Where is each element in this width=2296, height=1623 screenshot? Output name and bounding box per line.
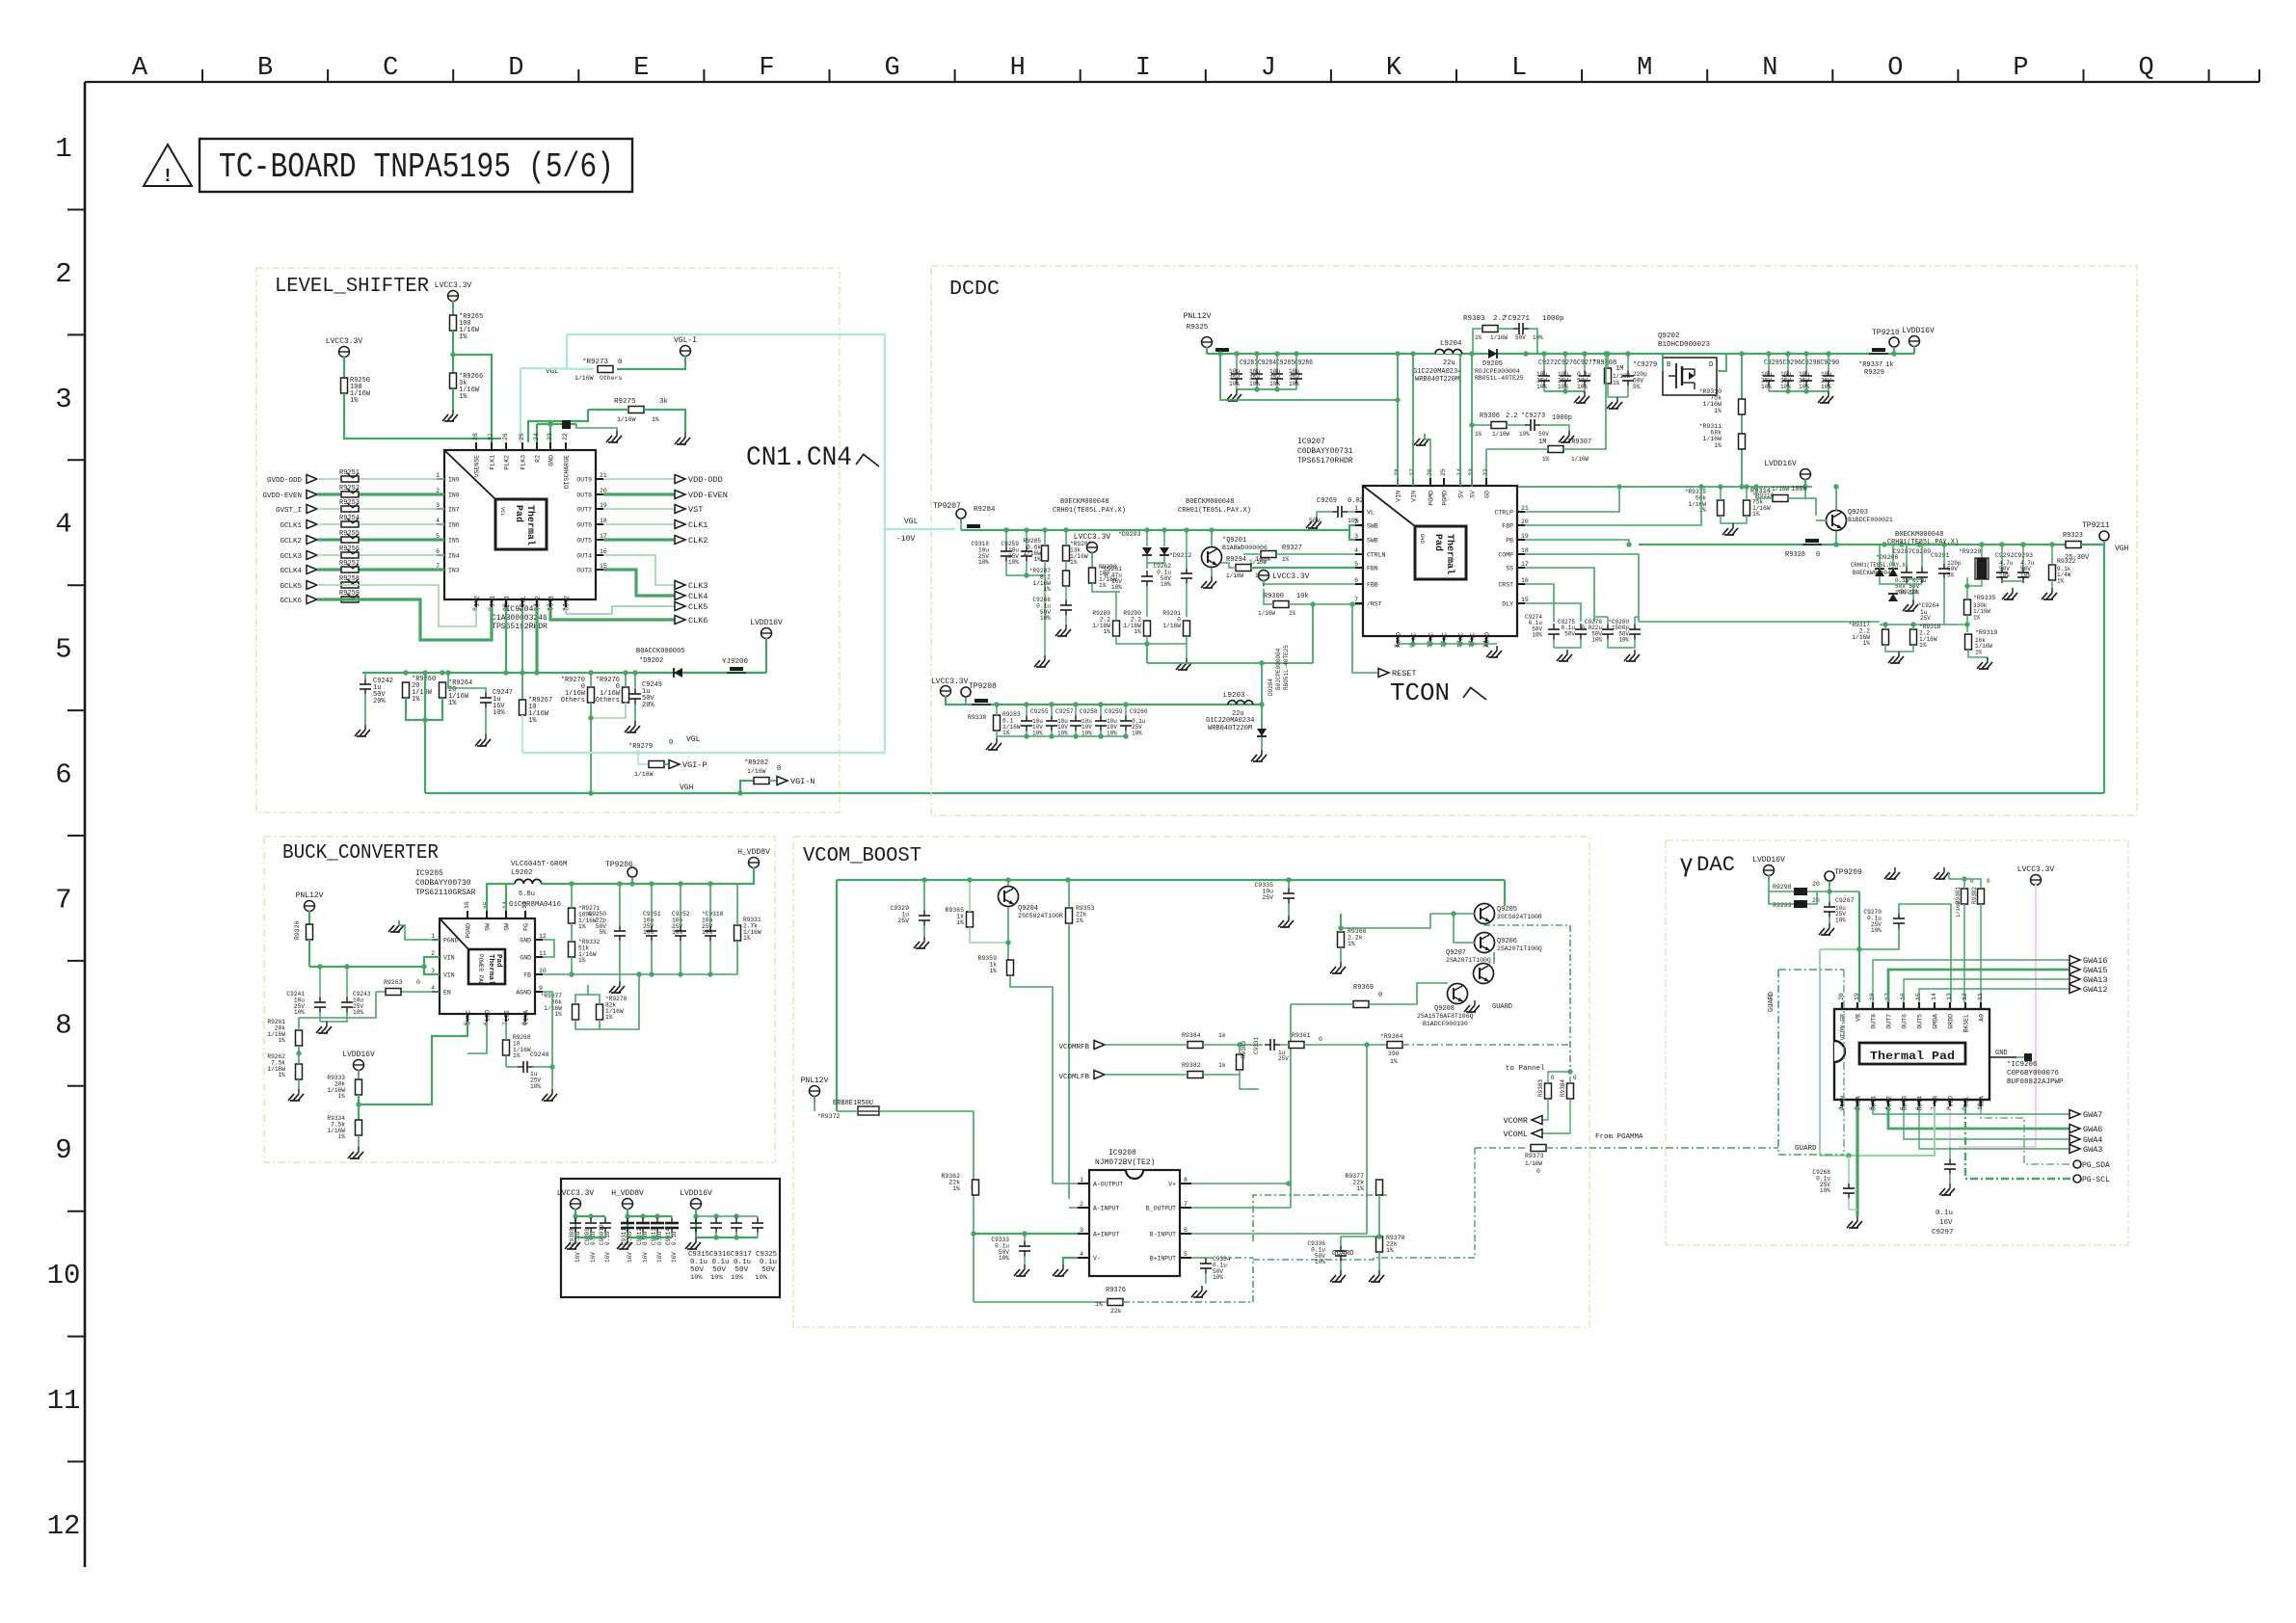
svg-text:10: 10 xyxy=(539,968,547,974)
svg-text:R9302: R9302 xyxy=(1971,887,1978,904)
resistor R9362 xyxy=(973,1180,979,1195)
svg-text:G1C6R8MA0416: G1C6R8MA0416 xyxy=(509,901,562,909)
svg-text:B0JCPE000004: B0JCPE000004 xyxy=(1275,648,1282,690)
svg-text:SW: SW xyxy=(504,923,511,931)
resistor R9283 xyxy=(994,715,1001,731)
svg-text:18: 18 xyxy=(600,518,607,524)
power LVDD16V xyxy=(1764,865,1775,876)
svg-text:TCON: TCON xyxy=(1390,678,1450,707)
svg-text:2SA2071T100Q: 2SA2071T100Q xyxy=(1446,957,1491,964)
block DCDC outline xyxy=(931,266,2137,815)
wire xyxy=(317,568,444,571)
svg-text:R9382: R9382 xyxy=(1182,1062,1201,1069)
svg-text:NC: NC xyxy=(1428,632,1435,640)
svg-text:I: I xyxy=(1135,54,1151,83)
svg-text:WRB040T220M: WRB040T220M xyxy=(1208,725,1252,732)
svg-text:R9275: R9275 xyxy=(614,398,636,406)
svg-text:16: 16 xyxy=(464,901,470,909)
svg-text:1: 1 xyxy=(1080,1177,1083,1184)
svg-text:IC9207: IC9207 xyxy=(1297,438,1325,446)
svg-text:0.1u: 0.1u xyxy=(604,1231,611,1245)
IC9207 pin 19 PB xyxy=(1517,539,1525,541)
svg-text:5%: 5% xyxy=(600,929,607,936)
svg-text:G1C220MA0234: G1C220MA0234 xyxy=(1413,368,1461,376)
svg-text:Thermal: Thermal xyxy=(1444,534,1455,574)
svg-text:AGND: AGND xyxy=(1484,632,1491,648)
svg-text:TP9210: TP9210 xyxy=(1872,329,1900,337)
wire B-INPUT xyxy=(1191,1045,1367,1234)
capacitor C9279 xyxy=(1622,375,1634,377)
IC9205 pin 13 PG xyxy=(524,911,526,918)
svg-text:25V: 25V xyxy=(1278,1055,1289,1062)
svg-text:C9269: C9269 xyxy=(1317,497,1337,505)
svg-text:GUARD: GUARD xyxy=(1768,992,1775,1012)
svg-text:R9329: R9329 xyxy=(1864,369,1884,377)
svg-text:1%: 1% xyxy=(528,717,537,725)
svg-text:*R9273: *R9273 xyxy=(582,359,609,366)
svg-text:10%: 10% xyxy=(1558,384,1568,390)
IC9208 pin 1 A-OUTPUT xyxy=(1078,1183,1089,1184)
svg-text:BUF08822AJPWP: BUF08822AJPWP xyxy=(2007,1078,2064,1086)
svg-text:DCDC: DCDC xyxy=(949,279,1000,301)
svg-text:1%: 1% xyxy=(1542,456,1550,463)
IC9204 pin 26 PLK2 xyxy=(505,442,507,450)
svg-text:2SC5824T100R: 2SC5824T100R xyxy=(1018,913,1063,919)
resistor R9275 xyxy=(628,407,644,413)
wire GUARD label line xyxy=(1253,1245,1475,1260)
svg-text:1%: 1% xyxy=(1975,649,1983,655)
svg-text:Q: Q xyxy=(2138,54,2153,83)
wire bus + ground xyxy=(1907,578,1922,580)
svg-text:CLK2: CLK2 xyxy=(688,536,707,545)
row tick marks xyxy=(67,209,85,211)
svg-text:Others: Others xyxy=(596,697,620,705)
resistor R9290 xyxy=(1144,621,1151,636)
IC9207 thermal pad xyxy=(1415,526,1466,579)
svg-text:2: 2 xyxy=(1354,519,1358,525)
svg-text:CRST: CRST xyxy=(1498,582,1513,589)
ground xyxy=(619,981,621,986)
wire CLK6 route xyxy=(550,607,675,620)
ground (pin GND) xyxy=(616,431,618,436)
svg-text:1/16W: 1/16W xyxy=(1258,610,1275,617)
svg-text:0: 0 xyxy=(1378,992,1382,999)
IC9204 pin 20 OUT8 xyxy=(596,493,603,495)
svg-text:D: D xyxy=(1709,361,1713,369)
svg-text:LVDD16V: LVDD16V xyxy=(750,619,783,627)
IC9206 pin 3 OUT1 xyxy=(1872,1100,1874,1106)
IC9205 pin 12 GND xyxy=(535,939,543,941)
svg-text:CTRLN: CTRLN xyxy=(1367,552,1386,559)
svg-text:IC9205: IC9205 xyxy=(415,869,443,878)
GUARD dash-dot box xyxy=(1778,969,1844,971)
svg-text:0: 0 xyxy=(618,359,623,366)
svg-text:0: 0 xyxy=(1987,878,1990,885)
wire SDA dash-dot xyxy=(1981,1106,2073,1164)
svg-text:*R9308: *R9308 xyxy=(1592,359,1616,367)
svg-text:10%: 10% xyxy=(1519,431,1530,438)
IC9205 pin 8 VINA xyxy=(524,1014,526,1022)
wire GWA4 route xyxy=(1904,1106,2069,1139)
wire PGMD ground xyxy=(1429,470,1431,478)
svg-text:20%: 20% xyxy=(642,702,654,709)
svg-text:22u: 22u xyxy=(1443,359,1455,367)
resistor R9369 xyxy=(1353,1001,1369,1008)
svg-text:21: 21 xyxy=(1521,505,1529,512)
svg-text:FLK3: FLK3 xyxy=(521,455,527,470)
svg-text:TPS62110GRSAR: TPS62110GRSAR xyxy=(415,889,476,897)
diode D9212 xyxy=(1160,547,1169,555)
svg-text:OUT3: OUT3 xyxy=(576,568,592,574)
svg-text:R9300: R9300 xyxy=(1264,593,1284,600)
svg-text:CTRLP: CTRLP xyxy=(1494,510,1513,517)
IC9207 pin 6 FBB xyxy=(1355,583,1363,585)
svg-text:VGI-N: VGI-N xyxy=(790,777,815,786)
svg-text:10%: 10% xyxy=(2020,572,2031,578)
svg-text:PGMD: PGMD xyxy=(1442,491,1449,506)
svg-text:TC-BOARD TNPA5195 (5/6): TC-BOARD TNPA5195 (5/6) xyxy=(219,147,614,187)
svg-text:C9291: C9291 xyxy=(1931,552,1950,559)
svg-text:TPS65192RHDR: TPS65192RHDR xyxy=(492,623,547,631)
resistor R9332 xyxy=(569,942,575,957)
wire out VST xyxy=(603,508,675,510)
svg-text:4: 4 xyxy=(431,985,435,992)
IC9204 pin 24 R2 xyxy=(536,442,538,450)
svg-text:R2: R2 xyxy=(535,455,542,463)
capacitor C9276b xyxy=(1602,628,1614,630)
svg-text:1%: 1% xyxy=(1002,730,1010,736)
svg-text:L: L xyxy=(1511,54,1527,83)
svg-text:1/16W: 1/16W xyxy=(1490,334,1508,341)
svg-text:VCOML: VCOML xyxy=(1503,1130,1528,1139)
ground xyxy=(574,1237,576,1242)
svg-text:SCL: SCL xyxy=(1963,1096,1970,1107)
diode D9204 xyxy=(1261,663,1263,730)
wire xyxy=(341,597,359,602)
wire xyxy=(317,554,444,556)
wire down to R9376 net xyxy=(973,1111,974,1302)
resistor R9276 xyxy=(623,687,629,703)
IC9204 pin 25 FLK3 xyxy=(521,442,523,450)
svg-text:SV: SV xyxy=(1470,491,1477,498)
resistor R9302 xyxy=(1978,889,1985,904)
svg-text:K: K xyxy=(1386,54,1402,83)
output flag GWA15 xyxy=(2069,966,2080,974)
svg-text:GND: GND xyxy=(1995,1050,2008,1057)
svg-text:1/16W: 1/16W xyxy=(574,375,594,382)
svg-text:1k: 1k xyxy=(1218,1062,1226,1069)
IC9206 pin 14 GMDA xyxy=(1934,1002,1936,1009)
svg-text:R9361: R9361 xyxy=(1292,1032,1311,1039)
svg-text:LVDD16V: LVDD16V xyxy=(1752,856,1785,865)
svg-text:16V: 16V xyxy=(574,1252,581,1263)
resistor R9373 xyxy=(1475,1147,1527,1149)
svg-text:VB: VB xyxy=(1855,1014,1862,1022)
svg-text:GCLK3: GCLK3 xyxy=(280,553,302,561)
IC9207 pin 11 NC xyxy=(1443,636,1445,644)
svg-text:1/16W: 1/16W xyxy=(617,416,636,423)
svg-text:10%: 10% xyxy=(1229,381,1240,387)
wire xyxy=(317,538,444,541)
svg-text:CLK4: CLK4 xyxy=(688,592,707,601)
svg-text:γ: γ xyxy=(1680,848,1693,877)
IC9205 pin 16 PGND xyxy=(467,911,468,918)
svg-text:1000p: 1000p xyxy=(1542,315,1564,323)
svg-text:GWA15: GWA15 xyxy=(2083,966,2108,975)
resistor R9307 xyxy=(1548,446,1563,453)
wire guard vertical left xyxy=(1474,1148,1476,1245)
svg-text:10%: 10% xyxy=(1213,1274,1223,1281)
svg-text:24: 24 xyxy=(533,433,540,440)
IC9205 pin 15 SW xyxy=(486,911,488,918)
capacitor C9289 xyxy=(1916,572,1928,573)
svg-text:4: 4 xyxy=(1354,547,1358,554)
bottom rail of level shifter xyxy=(362,672,766,674)
IC9207 pin 13 NC xyxy=(1471,636,1473,644)
jumper R9330 xyxy=(974,699,988,703)
resistor R9322 xyxy=(2049,565,2056,580)
resistor R9291 xyxy=(1184,621,1190,636)
wire GWA15 route xyxy=(1888,970,2069,1002)
wire bus to ground xyxy=(1006,574,1045,576)
svg-text:RB051L-40TE25: RB051L-40TE25 xyxy=(1475,375,1524,382)
svg-text:TPS65170RHDR: TPS65170RHDR xyxy=(1297,457,1353,466)
IC9204 pin 19 OUT7 xyxy=(596,508,603,510)
svg-text:IN9: IN9 xyxy=(448,477,460,484)
svg-text:6: 6 xyxy=(55,759,71,791)
wire VGH top rail xyxy=(1639,544,2099,545)
svg-text:R9376: R9376 xyxy=(1106,1287,1126,1294)
svg-text:PLK2: PLK2 xyxy=(504,455,511,470)
svg-text:0: 0 xyxy=(669,739,673,747)
ground xyxy=(1856,1216,1858,1221)
svg-text:C9287C9289: C9287C9289 xyxy=(1893,548,1931,555)
svg-text:H_VDD8V: H_VDD8V xyxy=(737,848,770,857)
wire xyxy=(317,492,444,495)
wire left vertical xyxy=(836,880,838,1111)
svg-text:OUT4: OUT4 xyxy=(1917,1096,1924,1111)
svg-text:R9326: R9326 xyxy=(294,920,301,940)
svg-text:0: 0 xyxy=(1536,1168,1540,1175)
wire bus + ground xyxy=(2002,580,2023,582)
ground xyxy=(923,937,925,942)
wire R9260/R9264 join xyxy=(406,698,442,720)
svg-text:GWA4: GWA4 xyxy=(2083,1135,2102,1145)
svg-text:1%: 1% xyxy=(1919,642,1927,649)
IC9207 pin 2 SWB xyxy=(1355,524,1363,526)
ground xyxy=(1616,397,1618,402)
block BUCK_CONVERTER outline xyxy=(264,837,775,1162)
resistor R9298 jumper xyxy=(1794,888,1807,895)
output flag GWA3 xyxy=(2069,1145,2080,1154)
svg-text:2SA2071T100Q: 2SA2071T100Q xyxy=(1497,945,1542,952)
svg-text:27: 27 xyxy=(488,433,494,440)
svg-text:D9205: D9205 xyxy=(1482,360,1503,368)
svg-text:22: 22 xyxy=(562,433,569,440)
wire R9265 junction to FLK1 xyxy=(453,355,492,442)
svg-text:Thermal: Thermal xyxy=(524,505,536,545)
wire R9250 to IC xyxy=(344,393,501,439)
svg-text:O: O xyxy=(1887,54,1903,83)
IC9207 pin 14 AGND xyxy=(1485,636,1487,644)
border frame top line xyxy=(85,81,2259,83)
svg-text:1%: 1% xyxy=(605,1014,613,1021)
IC9206 pin 11 A0 xyxy=(1980,1002,1982,1009)
svg-text:1%: 1% xyxy=(652,416,659,423)
ground xyxy=(364,725,366,730)
wire xyxy=(341,582,359,588)
power LVCC3.3V xyxy=(571,1199,581,1210)
svg-text:4: 4 xyxy=(1080,1251,1083,1258)
svg-text:100k: 100k xyxy=(1791,486,1807,493)
IC9204 pin 13 OUT1 xyxy=(549,599,551,607)
svg-text:CLK5: CLK5 xyxy=(688,602,707,612)
svg-text:C9283C9284C9285C9286: C9283C9284C9285C9286 xyxy=(1240,359,1313,367)
power H_VDD8V xyxy=(749,858,760,868)
transistor Q9207 xyxy=(1474,964,1494,984)
capacitor C9314 xyxy=(665,1222,679,1225)
svg-text:C9267: C9267 xyxy=(1835,897,1855,904)
IC9205 pin 6 LBO xyxy=(486,1014,488,1022)
capacitor C9291 xyxy=(1938,568,1950,570)
svg-text:15: 15 xyxy=(1521,597,1529,603)
wire xyxy=(317,508,444,510)
IC9204 corner notch xyxy=(444,450,495,499)
capacitor C9273 xyxy=(1530,419,1532,431)
resistor R9287 xyxy=(1063,571,1070,586)
svg-text:10%: 10% xyxy=(1161,581,1171,588)
IC9204 pin 22 DISCHARGE xyxy=(565,442,567,450)
ground xyxy=(1288,916,1290,920)
resistor R9319 xyxy=(1965,634,1972,650)
IC9204 pin 10 VCH1 xyxy=(505,599,507,607)
wire bottom pins bus xyxy=(1398,643,1486,645)
op-amp IC9204 body xyxy=(444,450,596,599)
svg-text:Pad: Pad xyxy=(513,505,524,522)
svg-text:LVCC3.3V: LVCC3.3V xyxy=(435,281,472,290)
svg-text:1%: 1% xyxy=(1034,556,1042,563)
svg-text:1: 1 xyxy=(436,472,440,479)
svg-text:*R9279: *R9279 xyxy=(628,743,653,751)
svg-text:C9297: C9297 xyxy=(1932,1229,1954,1237)
svg-text:*R9364: *R9364 xyxy=(1380,1033,1403,1040)
svg-text:1/16W: 1/16W xyxy=(1162,623,1181,629)
border frame left line xyxy=(84,82,87,1567)
discharge pin pad xyxy=(562,420,571,429)
IC9204 pin 5 IN5 xyxy=(437,539,444,541)
svg-text:VCON-GB: VCON-GB xyxy=(1840,1014,1847,1040)
svg-text:0: 0 xyxy=(777,765,781,773)
wire B_OUTPUT vertical xyxy=(1290,1004,1292,1208)
IC9207 pin 9 NC xyxy=(1412,636,1414,644)
wire out VDD-ODD xyxy=(603,478,675,480)
svg-text:C9315C9316C9317 C9325: C9315C9316C9317 C9325 xyxy=(688,1251,777,1259)
svg-text:5: 5 xyxy=(1184,1251,1188,1258)
svg-text:7: 7 xyxy=(55,884,71,916)
svg-text:RB051L-40TE25: RB051L-40TE25 xyxy=(1283,645,1290,690)
output flag VDD-ODD xyxy=(675,475,685,484)
svg-text:0: 0 xyxy=(1551,1075,1555,1081)
svg-text:R9325: R9325 xyxy=(1187,324,1209,332)
IC9208 pin 2 A-INPUT xyxy=(1078,1207,1089,1209)
svg-text:PNL12V: PNL12V xyxy=(801,1077,829,1085)
IC9206 pin 1 VCON xyxy=(1841,1100,1843,1106)
resistor R9333 xyxy=(356,1079,362,1095)
svg-text:11: 11 xyxy=(1977,993,1984,1000)
wire GCLK5 wrap to pin 8 xyxy=(317,585,476,626)
svg-text:PB: PB xyxy=(1506,538,1513,545)
port PG_SDA xyxy=(2073,1160,2081,1168)
svg-text:VDD-ODD: VDD-ODD xyxy=(688,475,723,485)
wire R9275 net xyxy=(588,409,628,411)
svg-text:C1AB00003246: C1AB00003246 xyxy=(492,614,547,623)
svg-text:OUT5: OUT5 xyxy=(1917,1014,1924,1029)
diode D9202 xyxy=(641,672,673,674)
svg-text:VGL: VGL xyxy=(686,735,701,744)
svg-text:*D9212: *D9212 xyxy=(1169,552,1192,559)
wire GWA7 route xyxy=(1873,1106,2069,1114)
svg-text:GCLK1: GCLK1 xyxy=(280,522,302,530)
IC9207 pin 16 CRST xyxy=(1517,583,1525,585)
wire AGND xyxy=(543,992,552,1052)
wire A-INPUT xyxy=(1069,1207,1078,1209)
svg-text:GD: GD xyxy=(1484,491,1491,498)
capacitor C9336 xyxy=(1335,1250,1347,1252)
IC9207 corner notch xyxy=(1363,486,1415,526)
capacitor C9287 xyxy=(1901,572,1912,573)
output flag VGI-P xyxy=(669,760,680,769)
svg-text:WRB040T220M: WRB040T220M xyxy=(1415,376,1459,384)
wire GCLK6 wrap to pin 9 xyxy=(317,599,492,640)
output flag GWA6 xyxy=(2069,1125,2080,1133)
svg-text:1%: 1% xyxy=(952,1185,960,1192)
ground xyxy=(1584,391,1586,396)
output flag GWA12 xyxy=(2069,985,2080,994)
svg-text:10%: 10% xyxy=(1799,384,1809,390)
svg-text:0.1u 0.1u 0.1u 0.1u: 0.1u 0.1u 0.1u 0.1u xyxy=(690,1259,777,1266)
svg-text:50V: 50V xyxy=(1538,431,1549,438)
svg-text:Q9207: Q9207 xyxy=(1446,949,1466,957)
resistor R9314 xyxy=(1773,495,1788,502)
IC9206 pin 5 OUT3 xyxy=(1903,1100,1905,1106)
wire EN row xyxy=(376,991,440,993)
svg-text:TP9208: TP9208 xyxy=(969,682,997,691)
IC9204 pin 18 OUT6 xyxy=(596,523,603,525)
output flag VDD-EVEN xyxy=(675,491,685,499)
resistor R9310 xyxy=(1739,399,1746,414)
wire xyxy=(452,301,454,315)
svg-text:PNL12V: PNL12V xyxy=(296,891,324,900)
svg-text:OUT4: OUT4 xyxy=(576,553,592,560)
power LVCC3.3V (top) xyxy=(448,291,459,302)
svg-text:1%: 1% xyxy=(743,935,751,942)
svg-text:/RST: /RST xyxy=(1367,601,1382,608)
svg-text:OUT9: OUT9 xyxy=(576,477,592,484)
wire xyxy=(452,331,454,373)
svg-text:L9203: L9203 xyxy=(1223,692,1245,700)
svg-text:IC9208: IC9208 xyxy=(1108,1149,1136,1157)
svg-text:1%: 1% xyxy=(1863,640,1871,647)
svg-text:D: D xyxy=(508,54,523,83)
svg-text:9: 9 xyxy=(539,985,543,992)
column tick marks xyxy=(201,69,203,82)
capacitor C9317 xyxy=(731,1222,742,1224)
ground (top1) xyxy=(1894,867,1896,872)
IC9205 pin 5 SYNC xyxy=(467,1014,468,1022)
IC9204 pin 15 OUT3 xyxy=(596,569,603,571)
IC9205 pin 10 FB xyxy=(535,973,543,975)
port PG-SCL xyxy=(2073,1175,2081,1183)
